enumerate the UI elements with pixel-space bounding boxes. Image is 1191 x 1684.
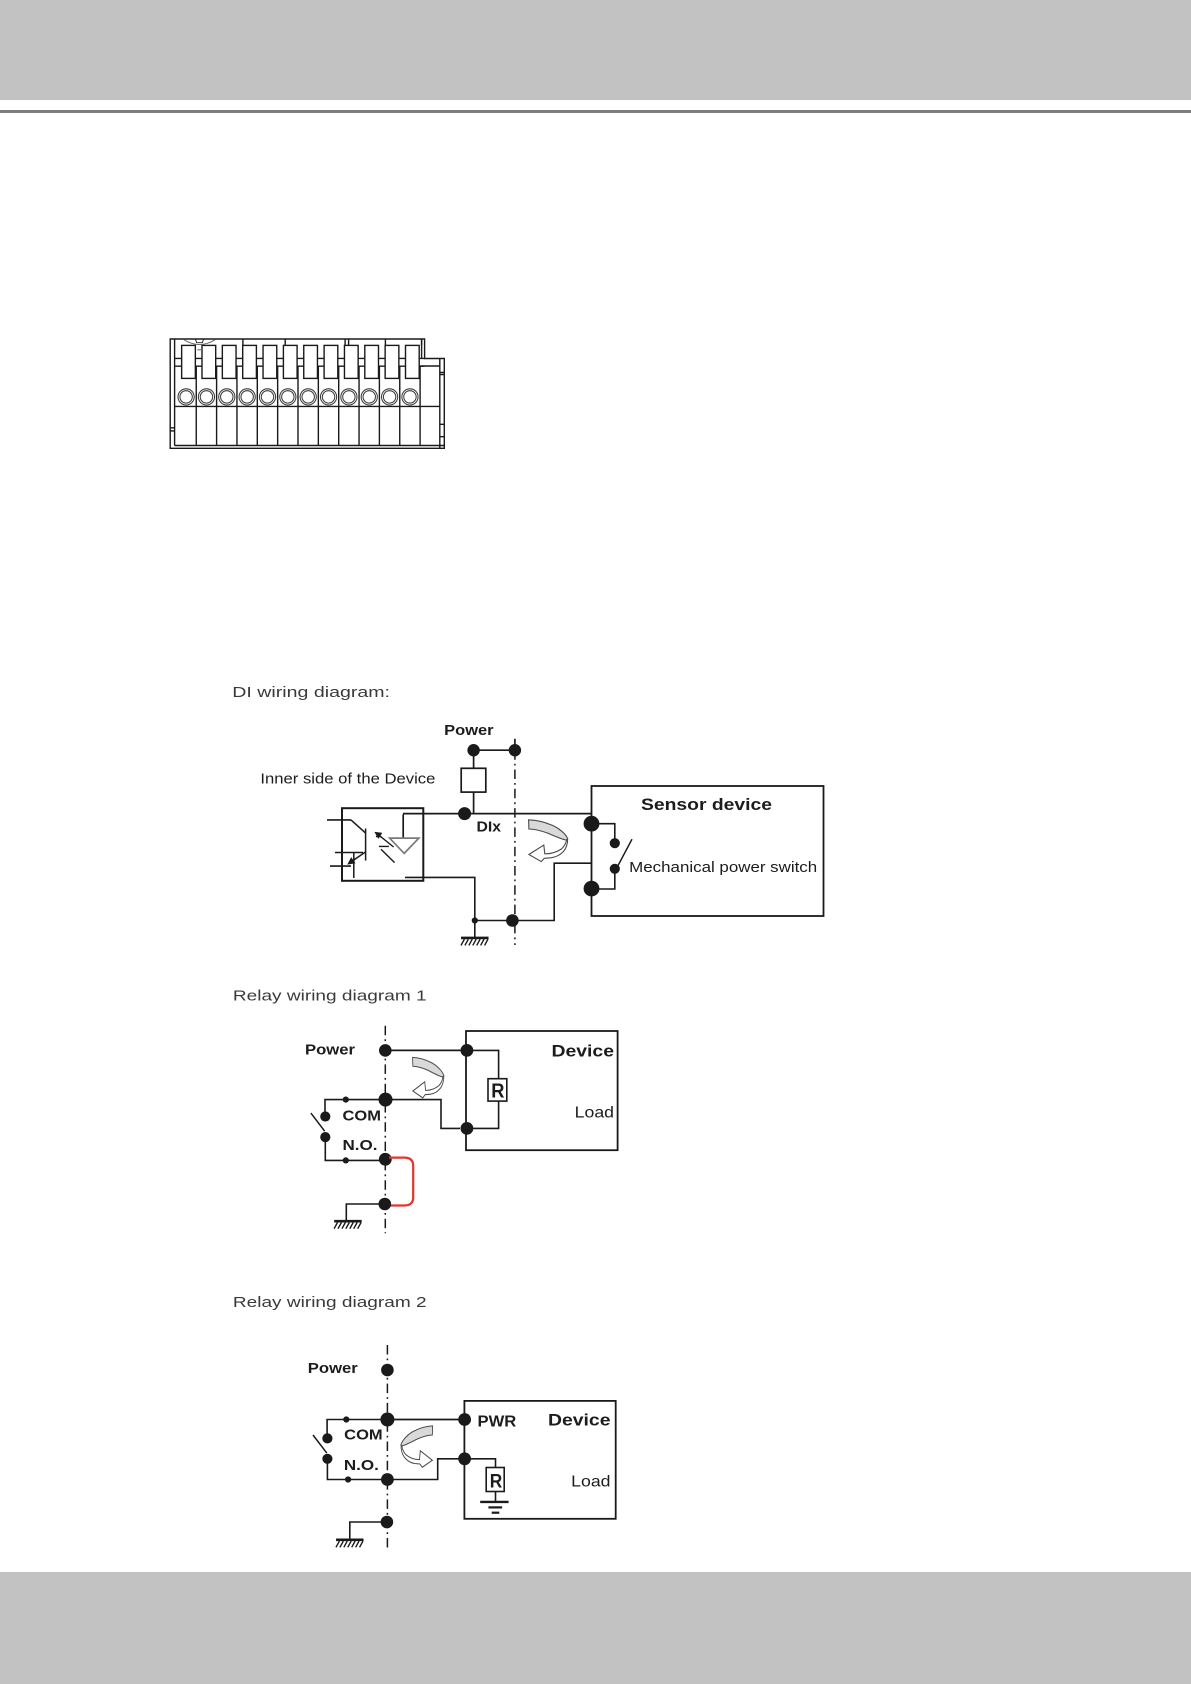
contact NO (relay 1) [320,1132,330,1142]
connector inner left wall [174,339,176,446]
svg-text:Sensor device: Sensor device [641,795,772,814]
node NO on centerline (relay 1) [379,1153,392,1166]
switch lever SW1 (sensor) [618,839,632,866]
connector outer body outline [170,339,444,448]
svg-text:DIx: DIx [477,819,502,836]
connector left notch [170,428,174,431]
wire DIx rail [403,813,592,815]
connection arrow (relay 2) [401,1426,433,1467]
connector cell divider walls [196,366,420,445]
node device PWR terminal (relay 2) [458,1413,471,1426]
switch lever (relay 1) [311,1113,325,1131]
junction COM (relay 1) [379,1093,393,1107]
connection arrow (DI) [529,820,568,862]
wire resistor to DIx node [473,792,475,814]
wire to ground (relay 1) [346,1204,385,1221]
contact switch upper (sensor) [610,838,620,848]
svg-text:Relay wiring diagram 2: Relay wiring diagram 2 [233,1294,427,1311]
svg-text:Load: Load [575,1105,614,1122]
wire NO to device load input (relay 2) [387,1459,464,1480]
node ground on centerline (relay 2) [381,1516,394,1529]
node Power (relay 1) [379,1044,392,1057]
contact COM (relay 1) [320,1111,330,1121]
wire device to R (relay 1) [467,1050,499,1078]
contact switch lower (sensor) [610,864,620,874]
wire stub above power node (DI) [514,739,516,745]
terminal block connector J1 [170,339,444,448]
svg-text:Inner side of the Device: Inner side of the Device [260,770,435,787]
phototransistor Q1 (inside U1) [349,820,366,878]
wire power rail (DI) [474,749,515,751]
centerline (relay 1 device boundary) [384,1026,386,1233]
device box (relay 2) [464,1401,615,1519]
node sensor terminal B [584,881,600,897]
switch lever (relay 2) [313,1435,327,1453]
svg-text:COM: COM [344,1426,383,1443]
connector terminal screw holes [178,389,418,405]
wire COM to device return (relay 1) [386,1100,461,1129]
wire opto emitter stub [330,865,351,867]
node ground on centerline (relay 1) [379,1198,392,1211]
svg-text:R: R [491,1080,505,1102]
wire opto base stub [335,852,363,854]
node Power right (DI) [509,744,521,756]
centerline (DI device boundary) [514,750,516,945]
svg-text:COM: COM [343,1108,382,1125]
resistor R (relay 1) [488,1079,507,1101]
wire to ground (relay 2) [350,1522,387,1540]
jumper wire (red, relay 1) [389,1158,413,1206]
svg-text:PWR: PWR [478,1413,517,1430]
wire power to device (relay 1) [385,1049,467,1051]
svg-text:Device: Device [548,1410,611,1429]
connector clamp tab band [175,357,425,359]
connector inner bottom line [175,445,445,447]
connector right extension [420,339,440,448]
LED D1 (inside U1) [402,814,404,838]
node NO on centerline (relay 2) [381,1473,394,1486]
junction small lower (relay 2) [345,1476,351,1482]
wire COM left (relay 1) [325,1100,386,1112]
contact NO (relay 2) [322,1454,332,1464]
junction ground small (DI) [472,917,478,923]
svg-text:Power: Power [444,722,494,739]
wire COM to device PWR (relay 2) [387,1419,464,1421]
resistor R (DI current limit) [461,768,486,792]
svg-text:N.O.: N.O. [343,1137,378,1154]
wire sensor switch upper [592,824,615,839]
node DIx [458,807,471,820]
junction small lower (relay 1) [343,1157,349,1163]
wire sensor switch lower [592,873,615,889]
svg-text:Power: Power [308,1360,358,1377]
header bar [0,0,1191,100]
junction small upper (relay 2) [343,1416,349,1422]
optocoupler U1 box [342,808,423,881]
svg-text:Mechanical power switch: Mechanical power switch [629,859,817,876]
svg-text:Load: Load [571,1473,610,1490]
earth ground (inside device, relay 2) [480,1502,508,1513]
node sensor terminal A [584,816,600,832]
svg-text:Device: Device [552,1041,615,1060]
node ground on centerline (DI) [506,914,519,927]
connection arrow (relay 1) [413,1057,444,1098]
wire R to device return (relay 1) [467,1101,499,1128]
junction small upper (relay 1) [343,1097,349,1103]
svg-text:N.O.: N.O. [344,1457,379,1474]
wire COM left (relay 2) [327,1420,387,1434]
connector keying ribs [243,339,422,345]
resistor R (relay 2) [486,1468,504,1492]
contact COM (relay 2) [322,1433,332,1443]
header rule [0,110,1191,113]
wire to ground symbol (DI) [474,921,476,938]
wire NO right (relay 1) [325,1141,385,1160]
svg-text:Power: Power [305,1042,355,1059]
wire load terminal to R (relay 2) [465,1459,496,1468]
svg-text:DI wiring diagram:: DI wiring diagram: [232,684,390,701]
wire power to resistor (DI) [473,756,475,768]
node device return terminal (relay 1) [461,1122,474,1135]
wire NO right (relay 2) [327,1463,387,1480]
connector mid shelf line [175,405,440,407]
wire ground rail (DI) [475,863,592,920]
node device PWR terminal (relay 1) [461,1044,474,1057]
device box (relay 1) [466,1031,618,1150]
connector screw-release arc (cell 1) [183,339,216,344]
ground (relay 1) [334,1221,362,1229]
ground (DI) [461,938,489,946]
light arrows (inside U1) [376,833,395,863]
footer bar [0,1572,1191,1684]
node Power left (DI) [467,744,479,756]
junction COM (relay 2) [380,1413,394,1427]
wire R to internal ground (relay 2) [495,1492,497,1502]
wire opto collector stub [327,819,351,821]
node device load terminal (relay 2) [458,1452,471,1465]
connector spring levers [182,345,420,378]
svg-text:Relay wiring diagram 1: Relay wiring diagram 1 [233,987,427,1004]
sensor device box [592,786,824,916]
wire opto emitter return [405,877,475,920]
ground (relay 2) [336,1540,364,1547]
node Power (relay 2) [381,1364,394,1377]
centerline (relay 2 device boundary) [386,1345,388,1551]
svg-text:R: R [490,1471,503,1492]
